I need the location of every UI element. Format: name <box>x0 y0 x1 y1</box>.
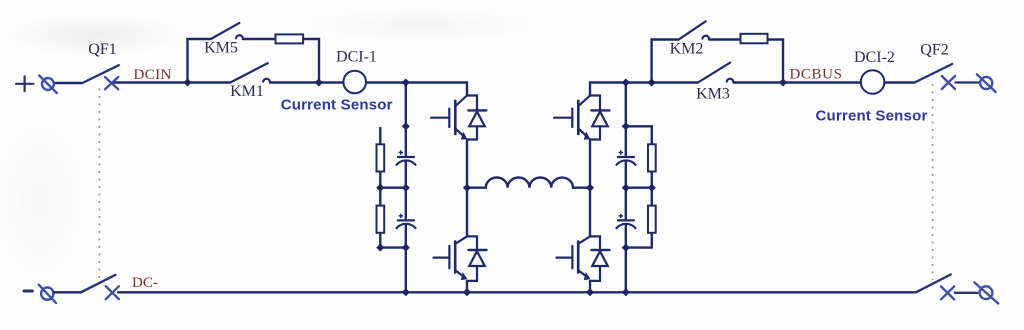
svg-text:KM2: KM2 <box>670 41 704 58</box>
svg-text:QF1: QF1 <box>88 41 116 58</box>
svg-text:KM3: KM3 <box>696 86 730 103</box>
svg-text:DCI-2: DCI-2 <box>854 49 895 66</box>
svg-text:Current Sensor: Current Sensor <box>816 108 928 125</box>
svg-text:KM1: KM1 <box>230 83 264 100</box>
svg-text:QF2: QF2 <box>920 42 948 59</box>
svg-text:KM5: KM5 <box>204 40 238 57</box>
svg-text:DC-: DC- <box>132 275 158 291</box>
svg-text:Current Sensor: Current Sensor <box>281 97 393 114</box>
svg-text:DCIN: DCIN <box>134 67 172 83</box>
svg-text:DCBUS: DCBUS <box>790 67 843 83</box>
svg-text:DCI-1: DCI-1 <box>336 49 377 66</box>
